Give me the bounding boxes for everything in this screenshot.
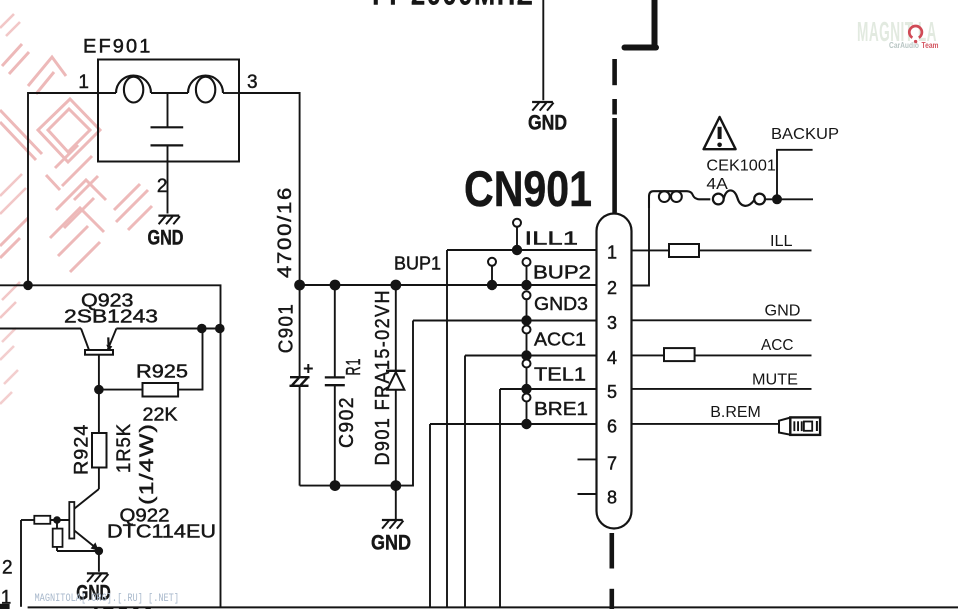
svg-text:B.REM: B.REM xyxy=(710,404,761,421)
svg-text:TEL1: TEL1 xyxy=(534,364,586,385)
svg-text:2SB1243: 2SB1243 xyxy=(64,306,158,327)
svg-text:CarAudio: CarAudio xyxy=(889,41,919,50)
wire bottom bus (to GND) xyxy=(300,321,413,486)
svg-text:6: 6 xyxy=(607,417,617,437)
node BUP1 xyxy=(394,253,496,283)
node BACKUP junction xyxy=(772,194,782,204)
board edge thick corner mark top xyxy=(625,0,657,48)
node junction EF901-rail xyxy=(23,281,33,291)
svg-text:4A: 4A xyxy=(706,176,728,193)
svg-text:C902: C902 xyxy=(336,396,358,448)
svg-text:Team: Team xyxy=(922,41,939,50)
ground Q922 xyxy=(76,551,156,609)
inductor backup line xyxy=(649,191,710,208)
svg-text:GND: GND xyxy=(765,303,801,320)
svg-text:ACC: ACC xyxy=(761,337,794,354)
svg-text:2: 2 xyxy=(157,176,168,197)
resistor R924 1R5K (1/4W) xyxy=(72,390,159,505)
svg-text:R925: R925 xyxy=(136,361,188,382)
svg-text:BACKUP: BACKUP xyxy=(771,126,839,143)
svg-text:3: 3 xyxy=(607,313,617,333)
node dots bottom bus xyxy=(330,480,402,491)
svg-text:22K: 22K xyxy=(143,404,179,425)
wire EF901 pin1 to rail xyxy=(28,93,98,285)
transistor Q923 2SB1243 xyxy=(64,290,158,390)
svg-text:CN901: CN901 xyxy=(464,160,592,217)
svg-text:R1: R1 xyxy=(343,358,365,376)
node dots emitter row xyxy=(197,324,225,334)
pin 8 stub xyxy=(578,493,597,495)
svg-text:4700/16: 4700/16 xyxy=(274,186,296,278)
connector B.REM (pin6 right) xyxy=(632,404,821,435)
svg-text:TT 2000MHZ: TT 2000MHZ xyxy=(368,0,534,11)
node BACKUP xyxy=(771,126,839,200)
bottom border line xyxy=(28,606,958,608)
svg-text:2: 2 xyxy=(2,558,13,579)
svg-text:1: 1 xyxy=(78,72,89,93)
node GND3 xyxy=(413,291,597,325)
line filter EF901 xyxy=(78,37,257,214)
svg-text:GND: GND xyxy=(148,226,184,250)
svg-text:ACC1: ACC1 xyxy=(534,329,586,350)
svg-text:BRE1: BRE1 xyxy=(534,398,588,419)
board edge dashed line above CN901 xyxy=(612,59,617,213)
svg-text:CEK1001: CEK1001 xyxy=(706,158,776,175)
svg-text:DTC114EU: DTC114EU xyxy=(107,521,216,542)
svg-text:MAGNITOLA[.ORG].[.RU] [.NET]: MAGNITOLA[.ORG].[.RU] [.NET] xyxy=(35,593,180,605)
svg-text:GND: GND xyxy=(528,111,567,135)
wire top center to ground xyxy=(542,0,544,100)
node TEL1 xyxy=(500,360,597,607)
svg-text:2: 2 xyxy=(607,278,617,298)
node BRE1 xyxy=(430,394,597,607)
capacitor C901 (electrolytic 4700/16) xyxy=(276,285,313,486)
fuse CEK1001 4A xyxy=(706,158,776,206)
node Q923 base junction xyxy=(94,385,104,395)
svg-text:5: 5 xyxy=(607,382,617,402)
node ILL1 xyxy=(447,219,597,607)
wire pin2 riser to backup xyxy=(632,208,650,286)
svg-text:R924: R924 xyxy=(72,424,93,476)
wire Q922 base input down xyxy=(20,520,22,607)
transistor Q922 DTC114EU xyxy=(21,489,216,551)
wire BUP bus (C901 to CN901 pin2) xyxy=(300,284,597,286)
svg-text:ILL1: ILL1 xyxy=(525,228,579,249)
ground top center xyxy=(528,102,567,135)
svg-text:1: 1 xyxy=(607,243,617,263)
svg-text:ILL: ILL xyxy=(770,233,793,250)
node BUP2 xyxy=(523,258,592,283)
node ACC1 xyxy=(465,326,597,607)
wire EF901 pin3 to C901 bus, label 4700/16 xyxy=(239,93,300,285)
svg-text:4: 4 xyxy=(607,348,617,368)
node dots BUP bus xyxy=(294,280,532,291)
svg-text:8: 8 xyxy=(607,488,617,508)
svg-text:C901: C901 xyxy=(276,303,298,354)
resistor ILL (pin1 right) xyxy=(632,244,812,257)
resistor ACC (pin4 right) xyxy=(632,348,812,361)
svg-text:MUTE: MUTE xyxy=(752,372,798,389)
svg-text:D901 FRA15-02VH: D901 FRA15-02VH xyxy=(372,289,394,466)
ground D901 xyxy=(371,486,411,555)
svg-text:EF901: EF901 xyxy=(83,37,153,58)
board edge dashed line below CN901 xyxy=(610,533,615,609)
svg-text:BUP2: BUP2 xyxy=(533,262,591,283)
svg-text:GND: GND xyxy=(371,531,411,555)
warning symbol xyxy=(704,117,736,149)
svg-text:(1/4W): (1/4W) xyxy=(137,423,158,505)
svg-text:3: 3 xyxy=(247,72,258,93)
pin 7 stub xyxy=(578,458,597,460)
node MUTE (pin5 right) xyxy=(632,372,812,389)
connector CN901 body xyxy=(464,160,632,529)
svg-text:GND3: GND3 xyxy=(534,293,588,314)
svg-text:1R5K: 1R5K xyxy=(114,423,135,473)
node Q922 emitter junction xyxy=(95,547,103,555)
svg-text:BUP1: BUP1 xyxy=(394,253,441,274)
wire fuse output right xyxy=(777,198,813,200)
wire Q923 collector rail top xyxy=(0,285,221,607)
capacitor C902 xyxy=(325,285,365,486)
diode D901 FRA15-02VH xyxy=(372,285,406,486)
node GND (pin3 right) xyxy=(632,303,812,321)
resistor R925 22K xyxy=(99,329,203,425)
wire Q923 emitter row xyxy=(0,328,221,330)
ground EF901 pin2 xyxy=(148,216,184,250)
svg-text:7: 7 xyxy=(607,454,617,474)
